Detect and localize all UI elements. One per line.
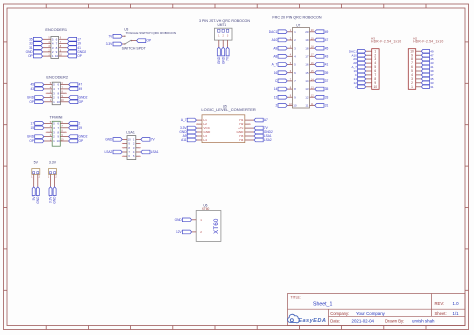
wire + net flag OP (pin 1) <box>44 101 52 103</box>
wire + net flag 47 (H2 pin 9) <box>416 54 422 56</box>
svg-text:OP: OP <box>147 39 152 43</box>
svg-text:OP: OP <box>28 54 33 58</box>
svg-text:18: 18 <box>305 46 309 50</box>
wire + net flag 49 (H2 pin 10) <box>416 50 422 52</box>
svg-text:GND: GND <box>27 135 35 139</box>
wire + net flag 35 (pin 5) <box>43 38 51 40</box>
TFMINI connector body <box>52 121 60 146</box>
UMT1 pin 2 contact <box>222 29 224 32</box>
svg-text:39: 39 <box>325 71 329 75</box>
wire + net flag 37 (H2 pin 4) <box>416 74 422 76</box>
svg-text:GND: GND <box>53 196 57 204</box>
svg-text:DAC1: DAC1 <box>269 30 278 34</box>
wire + net flag GND <box>122 138 127 140</box>
wire + net flag OP (pin 1) <box>43 55 51 57</box>
wire + net flag 43 (pin 4) <box>44 88 52 90</box>
svg-text:FRC 20 PIN QRC ROBOCON: FRC 20 PIN QRC ROBOCON <box>272 16 322 20</box>
wire + net flag A10 (H3 pin 2) <box>366 54 372 56</box>
svg-text:37: 37 <box>325 79 329 83</box>
svg-text:U7: U7 <box>296 23 300 27</box>
wire + net flag 33 (H2 pin 2) <box>416 82 422 84</box>
svg-text:Company:: Company: <box>330 311 349 316</box>
svg-text:12V: 12V <box>176 230 183 234</box>
svg-text:TITLE:: TITLE: <box>291 296 301 300</box>
svg-text:XT60: XT60 <box>214 218 220 234</box>
svg-text:ENCODER1: ENCODER1 <box>45 27 67 32</box>
wire + net flag 41 (H2 pin 6) <box>416 66 422 68</box>
wire + net flag 35 (H2 pin 3) <box>416 78 422 80</box>
svg-text:UMT1: UMT1 <box>217 23 226 27</box>
svg-text:10: 10 <box>57 139 61 143</box>
wire + net flag DAC1 (U7 pin 1) <box>287 31 292 33</box>
svg-text:49: 49 <box>79 87 83 91</box>
wire + net flag A_7 (U7 pin 5) <box>287 64 292 66</box>
svg-text:GND: GND <box>217 56 221 64</box>
wire + net flag GND (pin 2) <box>44 97 52 99</box>
svg-text:TOGGLE SWITCH QRC ROBOCON: TOGGLE SWITCH QRC ROBOCON <box>126 31 176 35</box>
wire + net flag 15 (pin 4) <box>44 127 52 129</box>
wire + net flag 17 (pin 6) <box>59 38 68 40</box>
ENCODER1 connector body <box>51 37 59 59</box>
svg-text:1: 1 <box>411 85 413 89</box>
wire + net flag OP (pin 10) <box>59 55 68 57</box>
wire + net flag 39 (U7 pin 15) <box>310 72 315 74</box>
svg-text:2021-02-04: 2021-02-04 <box>352 318 375 323</box>
LSA1 pin numbers <box>128 137 135 158</box>
U6 pin 1 wire <box>192 219 197 221</box>
wire + net flag A8 (U7 pin 4) <box>287 55 292 57</box>
svg-text:A7: A7 <box>264 118 268 122</box>
svg-text:12: 12 <box>274 95 278 99</box>
svg-text:16: 16 <box>274 71 278 75</box>
svg-text:A8: A8 <box>273 54 277 58</box>
svg-text:GND: GND <box>105 138 113 142</box>
LSA1 left pin stub <box>123 155 127 157</box>
wire + net flag 12 (H3 pin 9) <box>366 82 372 84</box>
svg-text:LSA1: LSA1 <box>126 130 135 134</box>
svg-text:15: 15 <box>305 71 309 75</box>
svg-text:45: 45 <box>325 46 329 50</box>
wire + net flag 31 (pin 3) <box>43 47 51 49</box>
net flag GND <box>53 187 56 196</box>
U5 pin names <box>203 118 244 142</box>
U5 right pin stub <box>245 123 250 125</box>
wire + net flag 16 (U7 pin 6) <box>287 72 292 74</box>
wire + net flag 33 (U7 pin 12) <box>310 96 315 98</box>
wire + net flag 12 (U7 pin 9) <box>287 96 292 98</box>
net flag 3.3V <box>49 187 52 196</box>
svg-text:Date:: Date: <box>330 318 340 323</box>
svg-text:13: 13 <box>305 87 309 91</box>
LSA1 right pin stub <box>136 143 140 145</box>
wire + net flag GND (U5 GND) <box>196 131 202 133</box>
UMT1 pin 3 contact <box>226 29 228 32</box>
UMT1 pin 3 wire <box>227 40 229 47</box>
wire + net flag 7V (U5 +Tx) <box>245 127 254 129</box>
svg-text:31: 31 <box>430 85 434 89</box>
svg-text:14: 14 <box>274 87 278 91</box>
svg-text:TFMINI: TFMINI <box>50 114 63 119</box>
wire 3.3V to switch throw <box>122 43 125 45</box>
wire + net flag 49 (U7 pin 20) <box>310 31 315 33</box>
net flag 5V <box>32 187 35 196</box>
ENCODER2 pin 3 stub <box>47 92 53 94</box>
svg-text:19: 19 <box>79 126 83 130</box>
svg-text:EasyEDA: EasyEDA <box>298 318 326 324</box>
wire 7V to switch throw <box>122 35 125 37</box>
wire + net flag 43 (U7 pin 17) <box>310 55 315 57</box>
EasyEDA logo <box>288 314 300 322</box>
wire + net flag LSA2 (U5 H4) <box>245 139 254 141</box>
svg-text:HDR-F-2.54_1x10: HDR-F-2.54_1x10 <box>371 39 401 43</box>
wire + net flag 14 (H3 pin 8) <box>366 78 372 80</box>
wire + net flag GND2 (pin 9) <box>60 136 68 138</box>
svg-text:OP: OP <box>79 139 84 143</box>
wire + net flag A11 (U5 L4) <box>196 139 202 141</box>
wire + net flag 3.3V (U5 VCC) <box>196 127 202 129</box>
svg-text:19: 19 <box>305 38 309 42</box>
svg-text:LOGIC_LEVEL_CONVERTER: LOGIC_LEVEL_CONVERTER <box>201 107 256 112</box>
wire + net flag A9 (U5 L3) <box>196 135 202 137</box>
wire + net flag 7V <box>136 138 141 140</box>
svg-text:OP: OP <box>29 100 34 104</box>
TFMINI pin 8 stub <box>60 131 66 133</box>
svg-text:OP: OP <box>79 100 84 104</box>
U5 left pin stub <box>197 123 202 125</box>
wire + net flag 43 (H2 pin 7) <box>416 62 422 64</box>
svg-text:H4: H4 <box>239 138 243 142</box>
svg-text:GND: GND <box>36 196 40 204</box>
net flag 3.3V <box>113 42 122 46</box>
svg-text:17: 17 <box>30 122 34 126</box>
svg-text:LSA2: LSA2 <box>104 150 112 154</box>
svg-text:3.3V: 3.3V <box>106 42 113 46</box>
wire + net flag 47 (U7 pin 19) <box>310 39 315 41</box>
svg-text:1.0: 1.0 <box>453 301 460 306</box>
wire + net flag A8 (H3 pin 4) <box>366 62 372 64</box>
H2 pin numbers <box>410 49 414 89</box>
U6 pin 2 wire <box>192 231 197 233</box>
net flag 7V <box>113 34 122 38</box>
wire + net flag OP (pin 1) <box>44 140 52 142</box>
wire + net flag 31 (H2 pin 1) <box>416 86 422 88</box>
wire + net flag 45 (pin 5) <box>44 84 52 86</box>
wire + net flag 41 (pin 8) <box>59 47 68 49</box>
wire + net flag 31 (U7 pin 11) <box>310 104 315 106</box>
svg-text:10: 10 <box>57 100 61 104</box>
wire + net flag LSA1 (U5 H3) <box>245 135 254 137</box>
svg-text:2: 2 <box>79 122 81 126</box>
wire + net flag A_7 (H3 pin 5) <box>366 66 372 68</box>
svg-text:47: 47 <box>325 38 329 42</box>
wire + net flag OP (pin 10) <box>60 101 68 103</box>
wire + net flag LSA1 <box>136 151 141 153</box>
svg-text:GND2: GND2 <box>79 135 88 139</box>
svg-text:Drawn By:: Drawn By: <box>385 318 404 323</box>
wire + net flag GND2 (U5 GND) <box>245 131 254 133</box>
svg-text:HDR-F-2.54_1x10: HDR-F-2.54_1x10 <box>413 39 443 43</box>
UMT1 pin 1 contact <box>218 29 220 32</box>
LSA1 left pin stub <box>123 143 127 145</box>
wire + net flag 19 (pin 7) <box>59 43 68 45</box>
svg-text:GND: GND <box>175 218 183 222</box>
wire + net flag 45 (U7 pin 18) <box>310 47 315 49</box>
wire + net flag 17 (pin 5) <box>44 122 52 124</box>
svg-text:A_7: A_7 <box>272 63 278 67</box>
svg-text:31: 31 <box>325 104 329 108</box>
svg-text:1/1: 1/1 <box>453 311 460 316</box>
svg-text:L4: L4 <box>203 138 207 142</box>
wire + net flag DAC1 (H3 pin 1) <box>366 50 372 52</box>
wire + net flag A10 (U7 pin 2) <box>287 39 292 41</box>
net flag 12V <box>182 230 191 234</box>
svg-text:A_7: A_7 <box>181 118 187 122</box>
wire + net flag GND2 (pin 9) <box>59 51 68 53</box>
wire + net flag 2 (H3 pin 10) <box>366 86 372 88</box>
wire + net flag A9 (U7 pin 3) <box>287 47 292 49</box>
svg-text:10: 10 <box>293 104 297 108</box>
svg-text:33: 33 <box>325 95 329 99</box>
wire + net flag 2 (U7 pin 10) <box>287 104 292 106</box>
svg-text:5V: 5V <box>34 160 39 164</box>
wire + net flag GND2 (pin 9) <box>60 97 68 99</box>
5V pin2 wire <box>37 174 39 187</box>
svg-text:Sheet_1: Sheet_1 <box>313 302 332 308</box>
H3 pin numbers <box>374 49 378 89</box>
wire + net flag C (H3 pin 7) <box>366 74 372 76</box>
wire + net flag 16 (H3 pin 6) <box>366 70 372 72</box>
U7 pin numbers <box>293 30 309 108</box>
wire + net flag GND (pin 2) <box>43 51 51 53</box>
svg-text:REV:: REV: <box>435 301 445 306</box>
wire + net flag A_7 (U5 L1) <box>196 119 202 121</box>
wire + net flag 14 (U7 pin 8) <box>287 88 292 90</box>
switch SPDT contacts + lever <box>124 36 125 37</box>
wire + net flag OP (pin 10) <box>60 140 68 142</box>
UMT1 pin 2 wire <box>222 40 224 47</box>
LSA1 right pin stub <box>136 147 140 149</box>
svg-text:12: 12 <box>305 95 309 99</box>
svg-text:10: 10 <box>374 85 378 89</box>
wire + net flag A9 (H3 pin 3) <box>366 58 372 60</box>
svg-text:10: 10 <box>55 54 59 58</box>
net flag GND <box>36 187 39 196</box>
svg-text:49: 49 <box>325 30 329 34</box>
wire + net flag 35 (U7 pin 13) <box>310 88 315 90</box>
svg-text:Sheet:: Sheet: <box>435 311 447 316</box>
wire + net flag LSA2 <box>122 151 127 153</box>
svg-text:A9: A9 <box>273 46 277 50</box>
5V pin1 wire <box>33 174 35 187</box>
svg-text:OP: OP <box>77 54 82 58</box>
svg-text:2: 2 <box>276 104 278 108</box>
wire + net flag 33 (pin 4) <box>43 43 51 45</box>
net flag GND <box>222 47 225 56</box>
svg-text:3.3V: 3.3V <box>49 160 57 164</box>
svg-text:43: 43 <box>30 87 34 91</box>
svg-text:16: 16 <box>305 63 309 67</box>
wire + net flag 47 (pin 6) <box>60 84 68 86</box>
svg-text:LSA1: LSA1 <box>151 150 159 154</box>
svg-text:A10: A10 <box>272 38 278 42</box>
wire + net flag 39 (H2 pin 5) <box>416 70 422 72</box>
TFMINI pin 3 stub <box>47 131 53 133</box>
net flag 7V <box>226 47 229 56</box>
LSA1 left pin stub <box>123 147 127 149</box>
wire + net flag C (U7 pin 7) <box>287 80 292 82</box>
wire switch pole to OP <box>132 40 137 42</box>
ENCODER2 pin 8 stub <box>60 92 66 94</box>
svg-text:GND: GND <box>221 56 225 64</box>
svg-text:SWITCH SPDT: SWITCH SPDT <box>122 46 147 50</box>
svg-text:15: 15 <box>30 126 34 130</box>
svg-text:LSA2: LSA2 <box>264 138 272 142</box>
title block <box>288 294 466 326</box>
LSA1 right pin stub <box>136 155 140 157</box>
svg-text:ENCODER2: ENCODER2 <box>46 75 68 80</box>
net flag OP <box>137 39 146 43</box>
wire + net flag 37 (U7 pin 14) <box>310 80 315 82</box>
svg-text:A11: A11 <box>181 138 187 142</box>
UMT1 pin 1 wire <box>218 40 220 47</box>
wire + net flag GND (pin 2) <box>44 136 52 138</box>
svg-text:43: 43 <box>325 54 329 58</box>
wire + net flag 19 (pin 7) <box>60 127 68 129</box>
svg-text:14: 14 <box>305 79 309 83</box>
3.3V pin1 wire <box>50 174 52 187</box>
svg-text:35: 35 <box>325 87 329 91</box>
wire + net flag 2 (pin 6) <box>60 122 68 124</box>
net flag GND <box>217 47 220 56</box>
wire + net flag 41 (U7 pin 16) <box>310 64 315 66</box>
wire + net flag 49 (pin 7) <box>60 88 68 90</box>
svg-text:41: 41 <box>325 63 329 67</box>
svg-text:Your Company: Your Company <box>356 311 386 316</box>
svg-text:17: 17 <box>305 54 309 58</box>
svg-text:OP: OP <box>29 139 34 143</box>
svg-text:20: 20 <box>305 30 309 34</box>
3.3V pin2 wire <box>54 174 56 187</box>
net flag GND <box>182 218 191 222</box>
wire + net flag A7 (U5 H1) <box>245 119 254 121</box>
ENCODER2 connector body <box>52 82 60 105</box>
svg-text:11: 11 <box>305 104 308 108</box>
svg-text:urvish shah: urvish shah <box>412 318 435 323</box>
wire + net flag 45 (H2 pin 8) <box>416 58 422 60</box>
